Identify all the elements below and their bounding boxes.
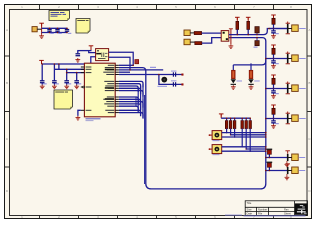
capacitor XS1 xyxy=(273,29,275,31)
title block xyxy=(245,201,307,216)
power VCC xyxy=(271,105,276,108)
capacitor C1 xyxy=(47,28,51,32)
capacitor xyxy=(271,91,276,93)
ground xyxy=(249,85,254,89)
logo xyxy=(295,203,308,214)
power VCC xyxy=(271,45,276,48)
wire cap ladder bottom rail xyxy=(42,32,68,34)
wire XS6 horizontal xyxy=(266,170,288,172)
svg-text:B: B xyxy=(6,81,8,85)
capacitor C osc xyxy=(77,51,79,54)
connector J3 xyxy=(184,39,190,45)
note box NOTE1 xyxy=(49,11,70,21)
wire S1 bundle xyxy=(222,132,266,134)
ground XS6 xyxy=(286,174,288,176)
power VCC xyxy=(271,75,276,78)
ground D1 xyxy=(229,44,234,48)
ground xyxy=(285,163,290,167)
pin bar XS4 xyxy=(287,114,289,124)
capacitor C2 xyxy=(55,28,59,32)
wire XS5 horizontal xyxy=(266,157,288,159)
wire bundle merge hint xyxy=(144,95,146,184)
resistor XS1 series element xyxy=(273,15,275,18)
resistor XS4 series element xyxy=(273,105,275,108)
note box NOTE2 xyxy=(76,19,90,34)
connector XS2 xyxy=(292,55,299,62)
capacitor C5 xyxy=(52,81,57,83)
LED XS6 element xyxy=(267,162,273,163)
ground xyxy=(271,94,276,98)
connector XS5 xyxy=(292,154,299,161)
wire F1 to D1 xyxy=(202,32,222,34)
wire XS3 stem xyxy=(273,84,275,88)
svg-text:Size: Size xyxy=(247,208,253,212)
fuse F1 xyxy=(194,32,201,35)
svg-text:Date: Date xyxy=(247,212,253,216)
U1 designator text xyxy=(86,118,101,119)
ground osc xyxy=(75,58,80,62)
svg-text:Number: Number xyxy=(258,208,267,212)
power port VBAT (red) xyxy=(135,60,139,64)
wire vertical P1 rail xyxy=(41,23,43,34)
U1 left pins xyxy=(81,67,85,110)
ground C6 xyxy=(64,85,69,89)
resistor RB3 xyxy=(234,118,236,120)
capacitor C4 xyxy=(40,81,45,83)
red rail D1 xyxy=(230,29,232,44)
wire cap ladder top rail xyxy=(42,27,68,29)
U1 NRST pin with circle xyxy=(81,86,83,88)
wire bundle verticals xyxy=(137,89,139,111)
wire to crystal pin1 xyxy=(89,51,96,53)
connector XS3 xyxy=(292,85,299,92)
wire bus upper xyxy=(229,29,288,35)
resistor RB5 xyxy=(245,118,247,120)
resistor XS3 series element xyxy=(273,75,275,78)
wire rail y69.3 xyxy=(54,68,84,70)
svg-text:A: A xyxy=(308,28,310,32)
ground C7 xyxy=(74,85,79,89)
capacitor XS2 xyxy=(273,59,275,61)
ground XS5 xyxy=(286,161,288,163)
svg-text:File: File xyxy=(258,212,263,216)
ground C4 xyxy=(40,85,45,89)
wire XS4 horizontal xyxy=(266,118,288,120)
LED LED1 xyxy=(231,79,236,83)
connector XS1 xyxy=(292,25,299,32)
resistor RB4 xyxy=(241,118,243,120)
ground P1 xyxy=(39,34,44,38)
ground xyxy=(271,64,276,68)
wire XS2 stem xyxy=(273,54,275,58)
svg-text:Title: Title xyxy=(247,201,252,205)
connector XS4 xyxy=(292,115,299,122)
pin bar XS1 xyxy=(287,24,289,34)
switch S1 xyxy=(212,131,222,140)
resistor RB6 xyxy=(249,118,251,120)
wire cap6 stem xyxy=(66,69,68,80)
wire row3 long xyxy=(119,69,163,71)
wire rail drop x58.9 xyxy=(58,64,60,69)
capacitor C osc plates xyxy=(76,54,81,56)
power VCC xyxy=(271,15,276,18)
connector XS6 xyxy=(292,167,299,174)
connector J2 xyxy=(184,30,190,36)
capacitor xyxy=(271,31,276,33)
power VCC xyxy=(219,114,224,117)
wire row2 loop start xyxy=(119,38,266,189)
svg-text:B: B xyxy=(308,81,310,85)
U1 right pins xyxy=(115,65,119,112)
wire crystal pin2 to rail xyxy=(91,57,96,64)
wire battery row top xyxy=(119,74,182,76)
power VCC XS6 xyxy=(285,164,290,167)
resistor RB2 xyxy=(230,118,232,120)
wire XS3 horizontal xyxy=(266,88,288,90)
pin bar XS3 xyxy=(287,84,289,94)
LED XS5 element xyxy=(267,149,273,150)
wire D2 to D1 xyxy=(202,38,221,44)
wire bundle rows g2-g4 xyxy=(119,81,143,87)
bottom margin text xyxy=(225,215,242,216)
wire XS4 stem xyxy=(273,114,275,118)
wire resistor rail xyxy=(221,117,250,119)
capacitor C6 xyxy=(64,81,69,83)
wire crystal right pin1 xyxy=(109,52,134,65)
ground xyxy=(285,176,290,180)
diode D1 xyxy=(221,31,229,42)
pin bar XS6 xyxy=(287,167,289,174)
capacitor XS3 xyxy=(273,89,275,91)
resistor RB1 xyxy=(226,118,228,120)
wire XS2 horizontal xyxy=(266,58,288,60)
svg-text:Rev: Rev xyxy=(284,208,289,212)
pin bar XS2 xyxy=(287,54,289,64)
power VCC xyxy=(89,46,94,49)
diode D2 xyxy=(195,42,202,45)
resistor R3 series xyxy=(255,27,259,33)
wire osc top xyxy=(77,50,91,52)
capacitor XS4 xyxy=(273,119,275,121)
wire cap5 stem xyxy=(53,64,55,81)
wire row1 to crystal xyxy=(119,64,133,66)
ground C5 xyxy=(52,85,57,89)
resistor R LED1 xyxy=(232,65,234,70)
power VCC P1 xyxy=(39,23,44,26)
resistor XS2 series element xyxy=(273,45,275,48)
wire S2 bundle xyxy=(222,146,266,148)
resistor R4 series xyxy=(255,41,259,46)
LED LED2 xyxy=(248,79,253,83)
title block texts xyxy=(247,201,292,216)
wire cap7 stem xyxy=(76,73,78,81)
capacitor xyxy=(271,121,276,123)
power VCC xyxy=(39,60,44,63)
pin bar XS5 xyxy=(287,154,289,161)
ground xyxy=(271,34,276,38)
wire battery drop xyxy=(159,75,182,85)
wire U1 bottom-left pin to ground xyxy=(78,110,81,116)
capacitor C bat1 (series) xyxy=(173,72,175,76)
wire rail y72.6 xyxy=(67,72,85,74)
capacitor C bat2 (series) xyxy=(173,82,175,86)
ground xyxy=(231,85,236,89)
crystal Y1 xyxy=(96,49,109,61)
op-amp U1 MCU body xyxy=(84,63,115,117)
svg-text:Sheet: Sheet xyxy=(284,212,291,216)
connector P1 xyxy=(32,27,37,32)
wire XS1 horizontal xyxy=(269,28,288,30)
resistor R LED2 xyxy=(250,65,252,70)
wire crystal right pin2 xyxy=(109,57,130,70)
no-ERC marker 2 xyxy=(181,83,183,85)
U1 pin name text left xyxy=(86,67,92,111)
ground xyxy=(271,124,276,128)
ground U1 xyxy=(76,116,81,120)
power VCC xyxy=(235,17,240,20)
svg-text:A: A xyxy=(6,28,8,32)
wire LED branch horizontal xyxy=(233,59,265,65)
battery BT1 xyxy=(161,77,167,83)
wire rail y64 xyxy=(42,63,91,65)
no-ERC marker 1 xyxy=(181,74,183,76)
switch S2 xyxy=(212,145,222,154)
wire row4 short xyxy=(119,71,130,73)
U1 pin name text right xyxy=(103,65,114,113)
capacitor C3 xyxy=(65,28,69,32)
power VCC xyxy=(246,17,251,20)
note box NOTE3 xyxy=(54,90,73,109)
capacitor C7 xyxy=(74,81,79,83)
power VCC XS5 xyxy=(285,151,290,154)
capacitor xyxy=(271,61,276,63)
wire XS1 stem xyxy=(273,24,275,28)
wire cap4 stem xyxy=(41,64,43,81)
